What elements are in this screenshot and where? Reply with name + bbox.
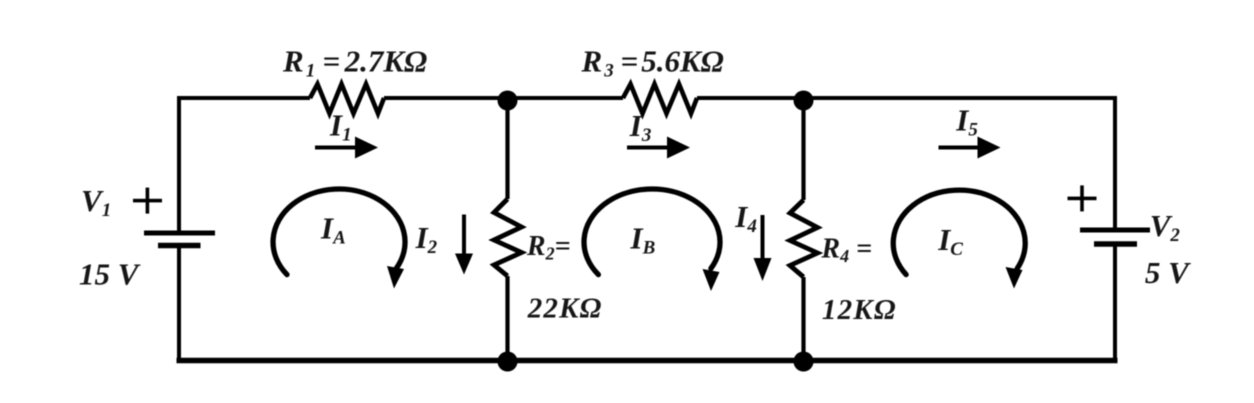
svg-text:12KΩ: 12KΩ	[822, 294, 897, 326]
svg-text:5 V: 5 V	[1145, 255, 1191, 290]
svg-text:=: =	[621, 44, 639, 79]
svg-text:2.7KΩ: 2.7KΩ	[344, 44, 428, 79]
svg-text:15 V: 15 V	[79, 257, 141, 292]
svg-text:22KΩ: 22KΩ	[527, 292, 603, 324]
svg-text:=: =	[323, 44, 341, 79]
svg-text:5.6KΩ: 5.6KΩ	[641, 44, 724, 79]
